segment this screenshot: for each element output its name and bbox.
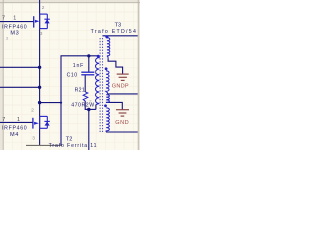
wire: half-bridge midpoint to riser [40, 102, 61, 104]
wire: left mid wire upper [0, 66, 40, 68]
T3 secondary B winding [106, 71, 109, 94]
svg-text:1nF: 1nF [73, 63, 84, 69]
svg-text:R21: R21 [75, 88, 85, 94]
wire: M4 gate wire [0, 121, 33, 123]
wire: primary bottom lead [95, 105, 97, 110]
svg-text:3: 3 [40, 31, 43, 37]
wire: gray bottom line (T2 area) [26, 144, 62, 146]
wire: T3 secondary A top wire [102, 35, 137, 37]
M3 body diode [44, 18, 49, 20]
svg-text:GND: GND [115, 120, 129, 126]
resistor R21 zigzag [83, 92, 88, 101]
junction dot [38, 86, 41, 89]
junction dot C10 tap [87, 54, 90, 57]
svg-text:GNDP: GNDP [112, 83, 129, 89]
transformer T3 core dashed lines [99, 38, 101, 132]
capacitor C10 plates [81, 71, 94, 73]
svg-text:470R2W: 470R2W [71, 103, 94, 109]
labels M3 [2, 16, 27, 37]
T3 secondary B phase dot [105, 67, 108, 70]
transistor M3 IRFP460 [34, 14, 48, 29]
svg-text:1: 1 [13, 16, 16, 22]
wire: secA bottom to GNDP [108, 59, 123, 74]
svg-text:Trafo Ferrita 11: Trafo Ferrita 11 [49, 143, 98, 149]
sheet border left [2, 0, 4, 150]
svg-text:1: 1 [17, 117, 20, 123]
wire: secC bottom to GND [106, 102, 122, 109]
junction dot [38, 66, 41, 69]
labels M4 [2, 117, 27, 138]
wire: secB bottom wire [108, 93, 138, 95]
T3 secondary C winding (small) [106, 95, 109, 103]
M4 arrow [34, 122, 39, 125]
wire: R21 bottom lead [84, 101, 86, 110]
svg-text:3: 3 [32, 135, 35, 141]
pin numbers M4 [31, 107, 35, 141]
wire: secD bottom wire [106, 131, 138, 133]
wire: snubber bottom wire [85, 108, 96, 110]
pin numbers M3 [40, 5, 45, 37]
wire: main half-bridge vertical rail [39, 0, 41, 145]
wire: left mid wire lower [0, 86, 40, 88]
sheet inner background [3, 3, 138, 150]
svg-text:M4: M4 [10, 132, 19, 138]
M4 body diode [44, 120, 49, 122]
svg-text:7: 7 [2, 117, 5, 123]
svg-text:7: 7 [2, 16, 5, 22]
junction dot [87, 108, 90, 111]
junction dot [60, 102, 62, 104]
wire: C10 bottom to R21 [84, 75, 86, 92]
svg-text:T2: T2 [66, 137, 73, 143]
junction dot node primary top [97, 55, 100, 58]
T3 primary winding (left) [96, 56, 100, 105]
T3 secondary D winding [106, 108, 109, 132]
M3 arrow [35, 20, 39, 23]
wire: M3 gate wire [0, 21, 34, 23]
svg-text:Trafo ETD/54: Trafo ETD/54 [91, 29, 138, 35]
svg-text:M3: M3 [10, 31, 19, 37]
tiny gray pin mark near primary top [95, 71, 96, 73]
transistor M4 IRFP460 [33, 116, 47, 129]
ground GND bars [116, 110, 129, 116]
junction dot [38, 101, 41, 104]
wire: riser vertical x61 [61, 56, 98, 146]
wire: vertical to bottom edge [88, 110, 90, 151]
svg-text:C10: C10 [67, 73, 78, 79]
svg-text:IRFP460: IRFP460 [2, 126, 27, 132]
wire: C10 top lead [88, 56, 90, 72]
junction dot secA top [105, 35, 108, 38]
svg-text:T3: T3 [115, 22, 122, 28]
sheet margin background [0, 0, 140, 150]
sheet border top [0, 2, 140, 4]
T3 secondary A winding (top right) [105, 36, 110, 59]
sheet border right [137, 0, 139, 150]
svg-text:2: 2 [31, 107, 34, 113]
svg-text:2: 2 [42, 5, 45, 11]
ground GNDP bars [117, 74, 129, 80]
T3 secondary D phase dot [104, 104, 107, 107]
